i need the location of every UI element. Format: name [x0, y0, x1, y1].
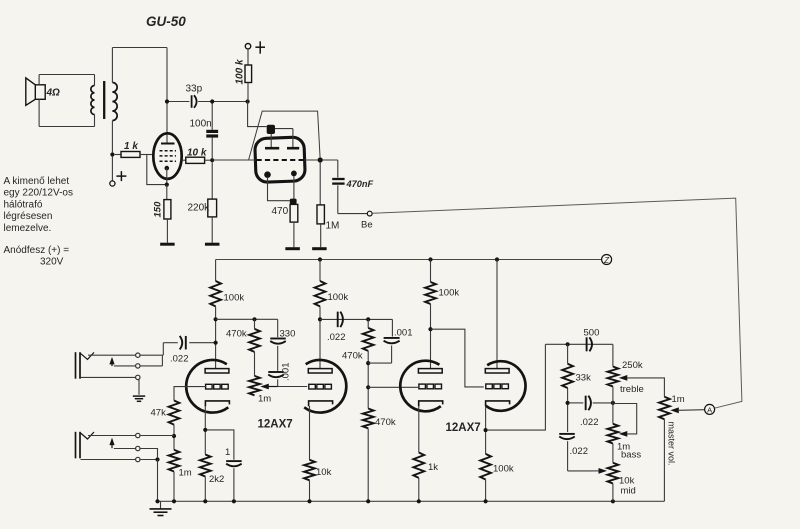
svg-text:.022: .022: [580, 417, 599, 428]
svg-text:100k: 100k: [439, 288, 460, 299]
svg-text:.022: .022: [570, 446, 589, 457]
svg-text:470nF: 470nF: [346, 179, 374, 189]
svg-text:33p: 33p: [186, 84, 203, 95]
svg-text:100k: 100k: [328, 292, 349, 303]
svg-text:500: 500: [584, 328, 600, 339]
svg-text:100k: 100k: [493, 464, 514, 475]
svg-text:150: 150: [153, 201, 164, 218]
svg-text:1M: 1M: [326, 221, 340, 232]
svg-text:Anódfesz (+) =: Anódfesz (+) =: [4, 245, 70, 256]
svg-text:470k: 470k: [226, 329, 247, 340]
svg-text:4Ω: 4Ω: [46, 88, 61, 99]
svg-text:A kimenő lehet: A kimenő lehet: [4, 176, 70, 187]
svg-text:1m: 1m: [258, 394, 271, 405]
svg-text:2k2: 2k2: [209, 474, 224, 485]
svg-text:.022: .022: [327, 332, 346, 343]
svg-text:33k: 33k: [576, 373, 592, 384]
svg-text:12AX7: 12AX7: [446, 422, 481, 434]
svg-text:1 k: 1 k: [124, 141, 138, 152]
svg-text:330: 330: [280, 329, 296, 340]
svg-text:100n: 100n: [190, 119, 212, 130]
svg-text:Be: Be: [361, 220, 373, 231]
svg-text:320V: 320V: [40, 256, 64, 267]
svg-text:.001: .001: [394, 328, 413, 339]
svg-text:mid: mid: [621, 486, 636, 497]
svg-text:47k: 47k: [151, 408, 167, 419]
svg-text:1k: 1k: [428, 462, 438, 473]
svg-text:470: 470: [272, 206, 289, 217]
svg-text:12AX7: 12AX7: [258, 419, 293, 431]
svg-text:470k: 470k: [375, 417, 396, 428]
svg-text:220k: 220k: [188, 203, 211, 214]
svg-text:250k: 250k: [622, 360, 643, 371]
svg-text:treble: treble: [620, 384, 644, 395]
svg-text:1m: 1m: [672, 394, 685, 405]
svg-text:lemezelve.: lemezelve.: [4, 223, 52, 234]
svg-text:10k: 10k: [316, 467, 332, 478]
svg-text:1m: 1m: [179, 468, 192, 479]
svg-text:GU-50: GU-50: [146, 14, 186, 29]
svg-text:470k: 470k: [342, 351, 363, 362]
svg-text:légrésesen: légrésesen: [4, 211, 53, 222]
svg-text:1: 1: [225, 447, 230, 458]
svg-text:A: A: [707, 405, 712, 414]
svg-text:bass: bass: [621, 450, 641, 461]
svg-text:hálótrafó: hálótrafó: [4, 199, 43, 210]
svg-text:egy 220/12V-os: egy 220/12V-os: [4, 188, 74, 199]
svg-text:100 k: 100 k: [235, 59, 246, 84]
svg-text:100k: 100k: [224, 293, 245, 304]
svg-text:10 k: 10 k: [187, 148, 207, 159]
svg-text:master vol.: master vol.: [667, 422, 677, 466]
svg-text:.001: .001: [281, 363, 292, 382]
svg-text:.022: .022: [170, 354, 189, 365]
